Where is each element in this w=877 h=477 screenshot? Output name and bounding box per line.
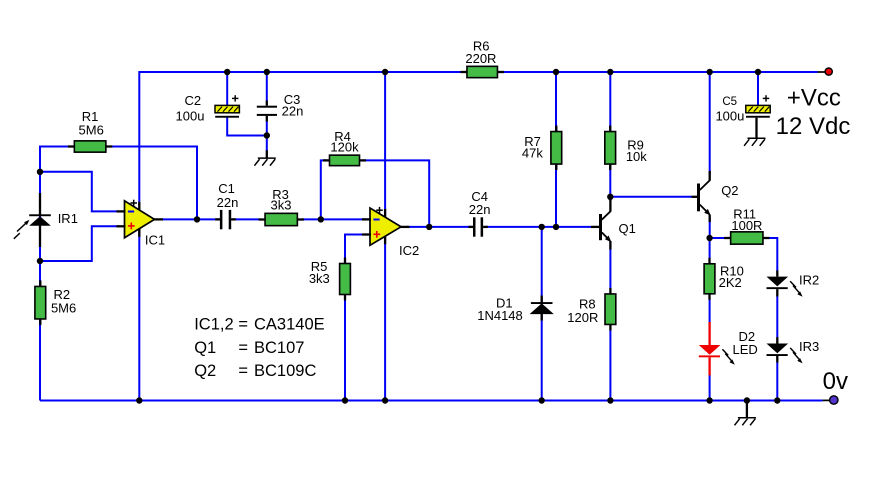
- wire Q1 collector node to Q2 base: [610, 196, 691, 198]
- svg-text:3k3: 3k3: [309, 271, 330, 286]
- node D1 tap: [539, 224, 545, 230]
- wire Q2 collector drop: [709, 72, 711, 175]
- svg-text:IC2: IC2: [399, 243, 419, 258]
- svg-text:BC107: BC107: [254, 339, 304, 357]
- node D2 bottom rail: [706, 397, 712, 403]
- node R7 top rail: [553, 69, 559, 75]
- wire Q1 emitter to R8: [609, 243, 611, 289]
- node Q2 collector rail: [707, 69, 713, 75]
- svg-text:120k: 120k: [330, 140, 359, 155]
- svg-text:IR3: IR3: [799, 339, 819, 354]
- svg-text:Q1: Q1: [194, 339, 216, 357]
- svg-text:Q2: Q2: [194, 362, 216, 380]
- resistor R10: [704, 258, 744, 300]
- wire IR3 cathode to 0v rail: [776, 362, 778, 401]
- wire R9 drop from rail to Q1 collector node: [609, 72, 611, 201]
- svg-text:C2: C2: [184, 93, 201, 108]
- node R8 bottom rail: [607, 397, 613, 403]
- svg-text:10k: 10k: [626, 149, 647, 164]
- node C2 top rail: [224, 69, 230, 75]
- wire C4 to Q1 base: [484, 226, 591, 228]
- wire R1 feedback to IC1 output: [106, 147, 197, 220]
- node IC2 supply bottom rail: [382, 397, 388, 403]
- node C2 C3 bottom junction: [264, 132, 270, 138]
- IC1 input stubs: [117, 210, 126, 212]
- svg-text:C5: C5: [722, 96, 737, 108]
- svg-text:0v: 0v: [823, 368, 848, 395]
- resistor R2: [35, 280, 76, 325]
- wire C2 drop: [226, 72, 228, 105]
- svg-text:Q1: Q1: [619, 221, 636, 236]
- wire R8 bottom to 0v rail: [609, 330, 611, 401]
- node R4 input tap: [318, 216, 324, 222]
- IR LED IR3: [767, 337, 820, 363]
- capacitor C1: [215, 181, 238, 229]
- node IR1 cathode: [37, 258, 43, 264]
- wire R11 right to IR2: [769, 238, 778, 271]
- wire node to R11: [710, 237, 726, 239]
- op-amp IC1: [125, 200, 166, 248]
- node IR1 anode: [37, 169, 43, 175]
- wire R5 bottom to 0v rail: [344, 295, 346, 401]
- wire C2 bottom to C3 bottom junction: [227, 117, 267, 136]
- wire D2 cathode to 0v rail: [709, 375, 711, 401]
- wire IR2 cathode to IR3 anode: [776, 296, 778, 338]
- svg-text:100u: 100u: [715, 109, 744, 124]
- terminal +Vcc: [818, 68, 833, 75]
- terminal 0v: [823, 396, 838, 404]
- resistor R5: [309, 258, 351, 301]
- wire bottom 0v rail: [40, 400, 823, 402]
- resistor R4: [323, 129, 366, 166]
- capacitor C3: [257, 92, 304, 121]
- svg-text:BC109C: BC109C: [254, 362, 316, 380]
- svg-text:47k: 47k: [522, 146, 543, 161]
- transistor Q1: [591, 200, 636, 250]
- node ground tap bottom rail: [744, 397, 750, 403]
- node R5 bottom rail: [342, 397, 348, 403]
- capacitor C4: [469, 189, 491, 237]
- node Q2 emitter: [706, 235, 712, 241]
- node R7 bottom: [553, 224, 559, 230]
- svg-text:3k3: 3k3: [271, 198, 292, 213]
- resistor R1: [68, 109, 113, 152]
- svg-text:IR2: IR2: [799, 273, 819, 288]
- svg-text:220R: 220R: [465, 51, 496, 66]
- svg-text:=: =: [238, 316, 248, 334]
- wire C3 drop: [266, 72, 268, 101]
- wire IC1 output to C1: [160, 218, 220, 220]
- svg-text:12 Vdc: 12 Vdc: [776, 113, 851, 140]
- wire R7 drop from rail to Q1 base node: [555, 72, 557, 227]
- svg-text:5M6: 5M6: [51, 301, 76, 316]
- ground under C3: [254, 150, 275, 165]
- wire IR1 cathode node to IC1 non-inverting input: [40, 226, 118, 261]
- wire R10 branch down to D2: [709, 238, 711, 259]
- svg-text:22n: 22n: [282, 103, 304, 118]
- resistor R9: [605, 126, 647, 171]
- svg-text:C1: C1: [218, 181, 235, 196]
- LED D2 red: [699, 322, 758, 376]
- capacitor C2: [176, 93, 240, 124]
- svg-text:22n: 22n: [217, 195, 239, 210]
- node Q1 collector R9: [607, 194, 613, 200]
- wire R3 to IC2 inverting input: [302, 218, 371, 220]
- resistor R7: [522, 126, 562, 171]
- svg-text:CA3140E: CA3140E: [254, 316, 325, 334]
- wire R4 feedback loop: [321, 160, 327, 219]
- parts list line Q1 = BC107: [194, 339, 304, 357]
- svg-text:2K2: 2K2: [719, 275, 742, 290]
- wire C1 to R3: [231, 218, 260, 220]
- svg-text:=: =: [238, 362, 248, 380]
- svg-text:IC1,2: IC1,2: [194, 316, 233, 334]
- wire top +Vcc rail: [139, 71, 817, 73]
- wire IC2 output to C4: [406, 226, 473, 228]
- svg-text:120R: 120R: [567, 310, 598, 325]
- op-amp IC2: [370, 207, 419, 258]
- svg-text:+Vcc: +Vcc: [787, 84, 841, 111]
- svg-text:22n: 22n: [469, 202, 491, 217]
- IC2 input stubs: [362, 218, 371, 220]
- svg-text:100u: 100u: [176, 109, 205, 124]
- wire R5 to IC2 non-inverting input: [345, 235, 368, 259]
- diode D1 1N4148: [477, 295, 552, 323]
- wire IC2 supply drop: [384, 71, 386, 401]
- wire R4 right to IC2 output node: [363, 160, 430, 227]
- node IC1 supply bottom rail: [136, 397, 142, 403]
- svg-text:LED: LED: [733, 342, 758, 357]
- wire D1 branch: [541, 227, 543, 401]
- wire C5 drop: [757, 72, 759, 105]
- IR LED IR2: [767, 271, 820, 297]
- svg-text:IC1: IC1: [145, 233, 165, 248]
- capacitor C5: [715, 95, 770, 123]
- resistor R3: [259, 187, 304, 226]
- svg-text:IR1: IR1: [58, 211, 78, 226]
- wire IR1 anode node to IC1 inverting input: [40, 172, 118, 212]
- node IC2 supply rail: [382, 69, 388, 75]
- resistor R8: [567, 288, 616, 331]
- ground at 0v rail: [735, 401, 756, 426]
- transistor Q2: [692, 171, 739, 222]
- resistor R11: [724, 207, 769, 245]
- node R9 top rail: [607, 69, 613, 75]
- svg-text:100R: 100R: [731, 218, 762, 233]
- resistor R6: [460, 39, 504, 78]
- parts list line IC1,2 = CA3140E: [194, 316, 324, 334]
- svg-text:5M6: 5M6: [79, 123, 104, 138]
- node IC2 output: [426, 224, 432, 230]
- node IR3 bottom rail: [774, 397, 780, 403]
- node D1 bottom rail: [539, 397, 545, 403]
- svg-text:1N4148: 1N4148: [477, 308, 523, 323]
- wire Q2 emitter to R10 R11 node: [709, 217, 711, 238]
- node C3 top rail: [264, 69, 270, 75]
- wire R1 left branch from left rail: [40, 147, 68, 401]
- ground under C5: [744, 118, 765, 146]
- wire C3 bottom to junction: [266, 121, 268, 151]
- svg-text:=: =: [238, 339, 248, 357]
- wire left supply drop to IC1 and bottom rail: [138, 71, 140, 401]
- node C5 top rail: [755, 69, 761, 75]
- parts list line Q2 = BC109C: [194, 362, 316, 380]
- svg-text:Q2: Q2: [721, 183, 738, 198]
- photodiode IR1: [14, 193, 78, 247]
- node IC1 output: [194, 216, 200, 222]
